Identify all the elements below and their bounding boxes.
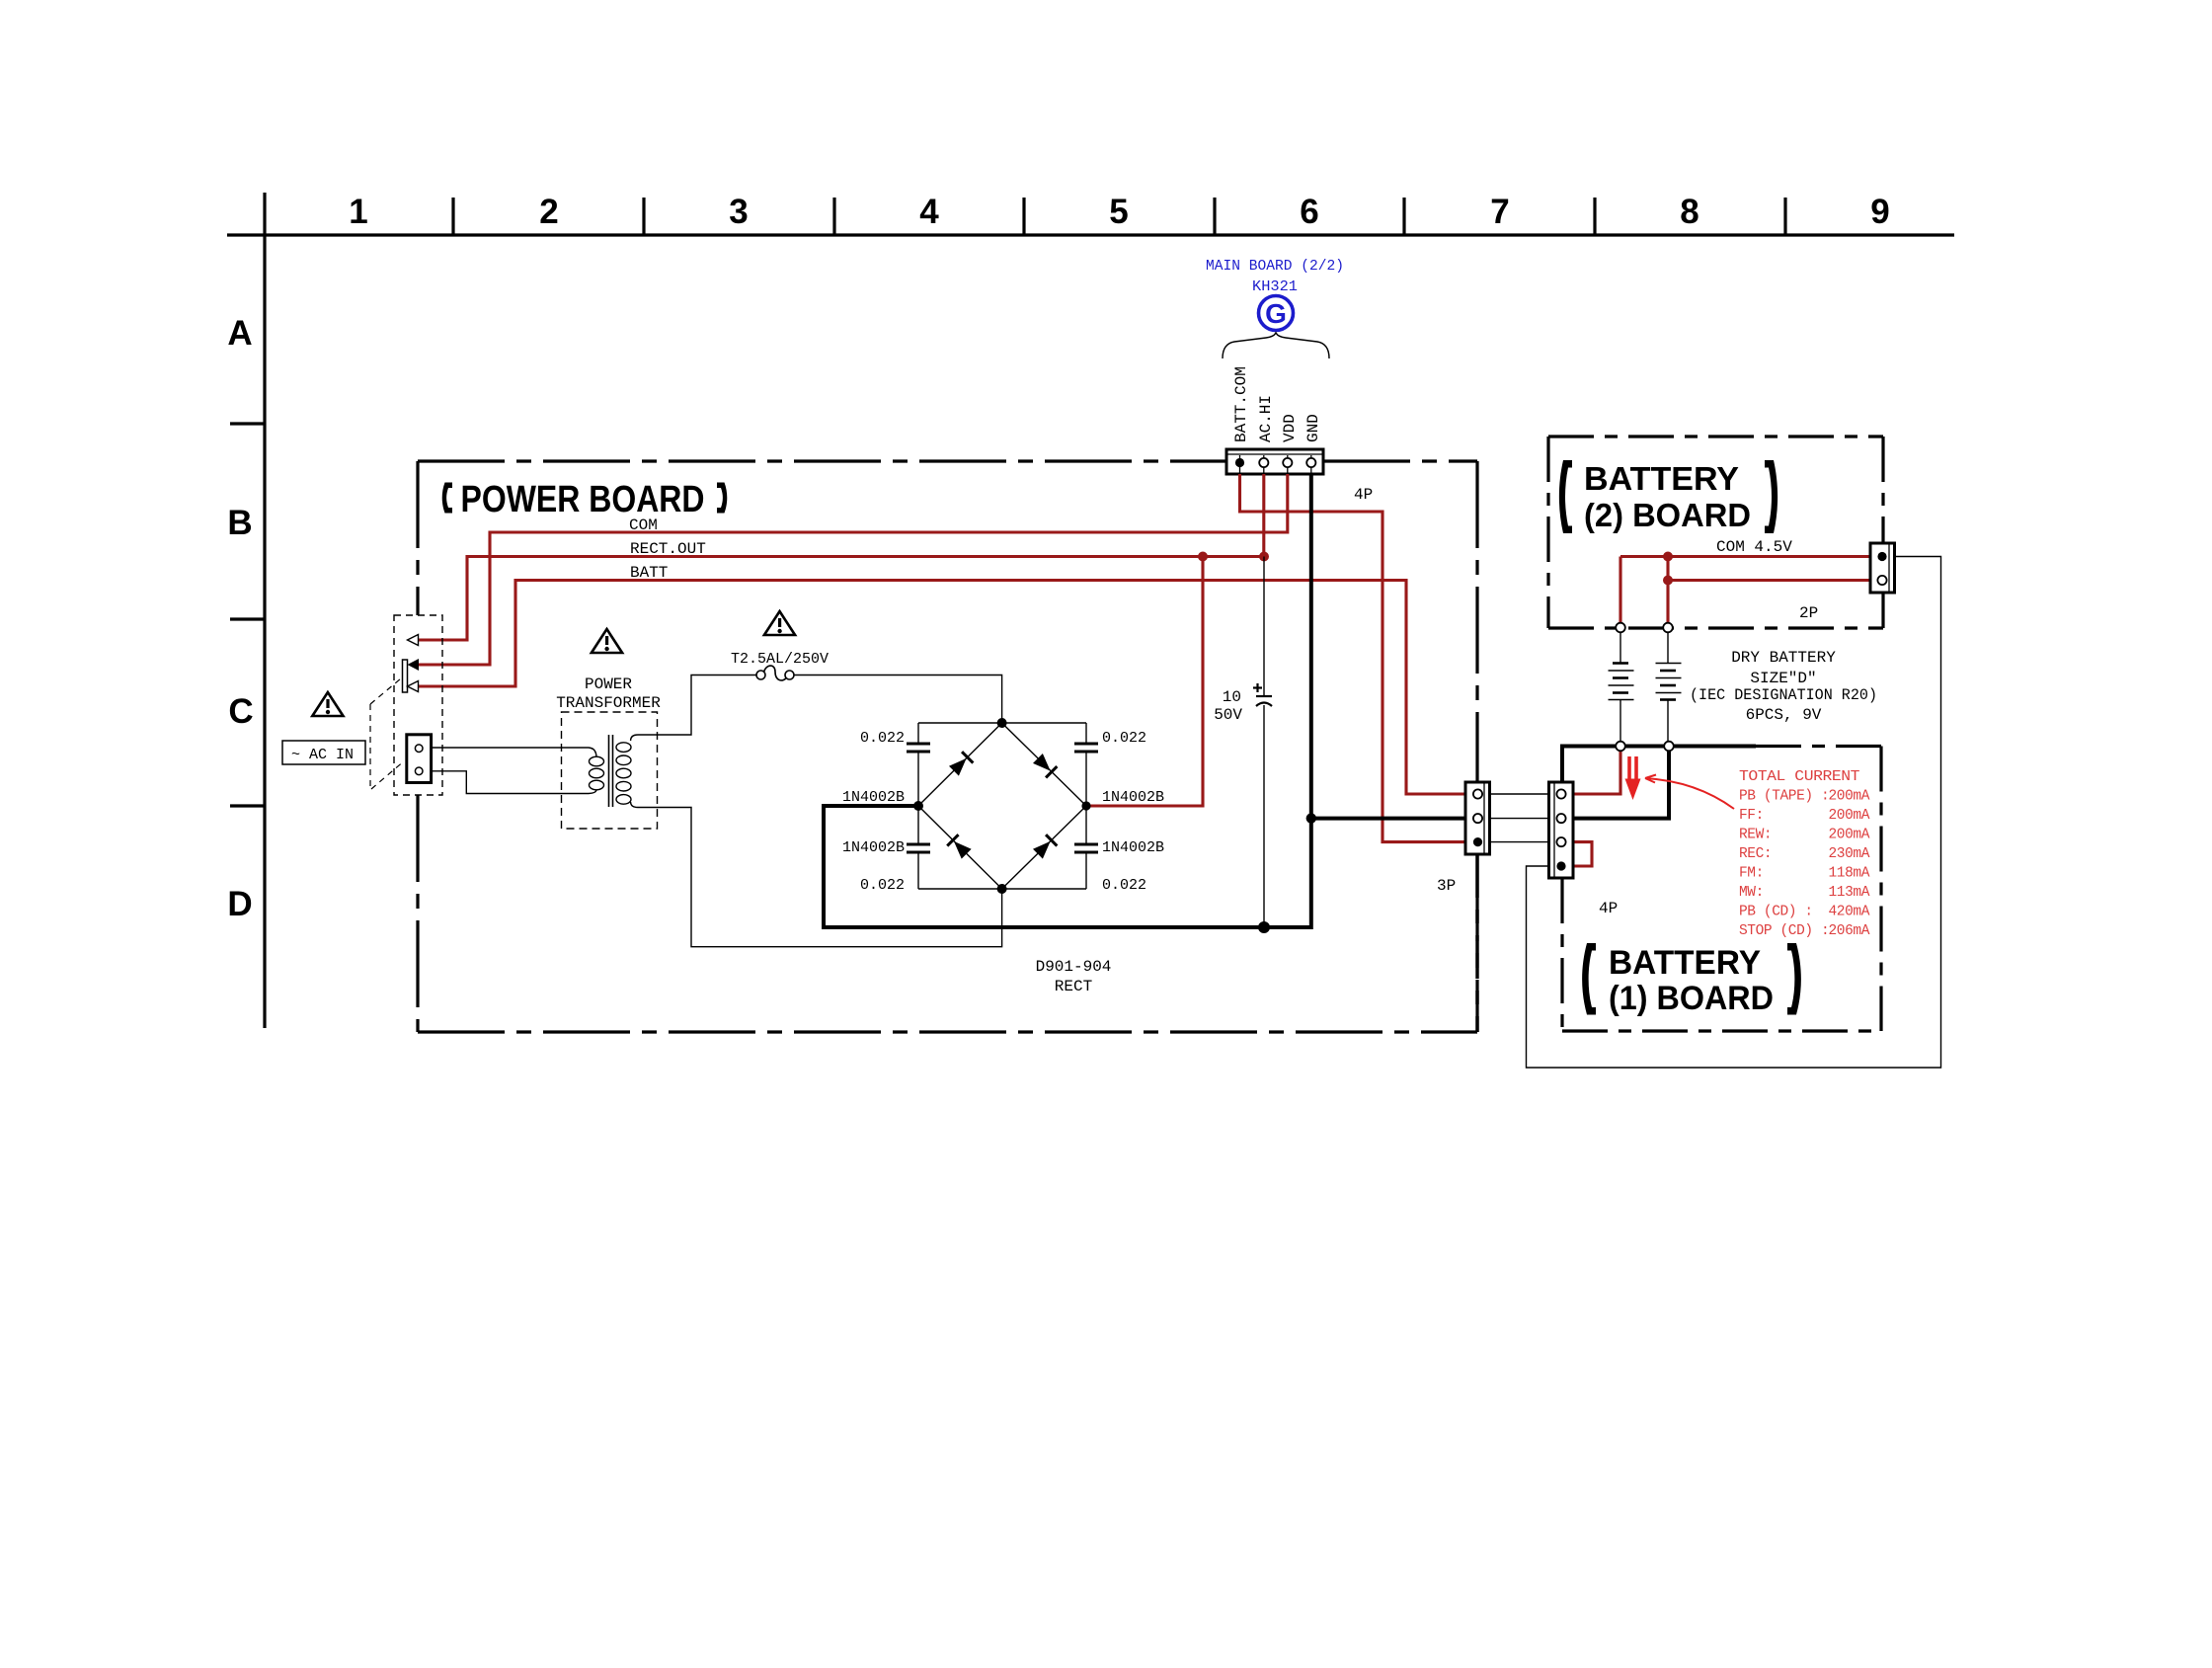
svg-text:STOP (CD) :: STOP (CD) : [1739,923,1829,939]
svg-text:8: 8 [1680,193,1698,231]
svg-text:200mA: 200mA [1828,828,1869,843]
svg-text:10: 10 [1223,688,1241,706]
svg-text:A: A [227,314,252,353]
svg-text:420mA: 420mA [1828,905,1869,920]
svg-text:SIZE"D": SIZE"D" [1750,670,1816,687]
svg-text:GND: GND [1304,414,1322,442]
svg-text:6PCS, 9V: 6PCS, 9V [1746,706,1822,724]
svg-text:2: 2 [539,193,558,231]
svg-text:COM 4.5V: COM 4.5V [1716,538,1792,556]
svg-text:DRY BATTERY: DRY BATTERY [1731,649,1836,667]
svg-text:6: 6 [1300,193,1318,231]
svg-text:3: 3 [729,193,748,231]
svg-text:1N4002B: 1N4002B [1102,839,1164,856]
svg-text:B: B [227,504,252,542]
svg-text:1N4002B: 1N4002B [1102,789,1164,806]
svg-text:POWER: POWER [585,675,632,693]
svg-text:POWER BOARD: POWER BOARD [461,479,705,520]
svg-text:50V: 50V [1214,706,1242,724]
svg-text:PB (TAPE) :: PB (TAPE) : [1739,789,1829,805]
svg-text:BATT.COM: BATT.COM [1232,366,1250,442]
svg-text:4: 4 [919,193,939,231]
svg-text:0.022: 0.022 [1102,730,1146,747]
svg-text:4P: 4P [1599,900,1618,917]
svg-text:1N4002B: 1N4002B [842,839,905,856]
svg-text:C: C [228,692,253,731]
svg-text:TOTAL CURRENT: TOTAL CURRENT [1739,769,1860,785]
svg-text:REW:: REW: [1739,828,1772,843]
svg-text:0.022: 0.022 [1102,877,1146,894]
svg-text:KH321: KH321 [1252,278,1298,295]
svg-text:(1) BOARD: (1) BOARD [1609,980,1774,1017]
svg-text:BATTERY: BATTERY [1584,460,1739,497]
svg-text:206mA: 206mA [1828,923,1869,939]
svg-text:RECT: RECT [1055,978,1092,995]
svg-text:VDD: VDD [1281,414,1299,442]
svg-text:7: 7 [1490,193,1509,231]
svg-text:D901-904: D901-904 [1036,958,1112,976]
svg-text:1: 1 [349,193,367,231]
svg-text:FM:: FM: [1739,866,1764,882]
svg-text:9: 9 [1870,193,1889,231]
svg-text:4P: 4P [1354,486,1373,504]
svg-text:FF:: FF: [1739,808,1764,824]
svg-text:AC.HI: AC.HI [1257,395,1275,442]
svg-text:230mA: 230mA [1828,846,1869,862]
svg-text:D: D [227,885,252,923]
svg-text:200mA: 200mA [1828,789,1869,805]
svg-text:1N4002B: 1N4002B [842,789,905,806]
svg-text:PB (CD) :: PB (CD) : [1739,905,1813,920]
svg-text:TRANSFORMER: TRANSFORMER [556,694,661,712]
svg-text:118mA: 118mA [1828,866,1869,882]
svg-text:MW:: MW: [1739,885,1764,901]
svg-text:3P: 3P [1437,877,1456,895]
svg-text:BATTERY: BATTERY [1609,944,1761,982]
svg-text:200mA: 200mA [1828,808,1869,824]
svg-text:0.022: 0.022 [860,877,905,894]
svg-text:113mA: 113mA [1828,885,1869,901]
svg-text:(IEC DESIGNATION R20): (IEC DESIGNATION R20) [1690,686,1877,704]
svg-text:MAIN BOARD (2/2): MAIN BOARD (2/2) [1206,258,1344,275]
svg-text:G: G [1265,298,1287,329]
svg-text:0.022: 0.022 [860,730,905,747]
svg-text:REC:: REC: [1739,846,1772,862]
svg-text:~ AC IN: ~ AC IN [291,747,354,763]
svg-text:(2) BOARD: (2) BOARD [1584,497,1751,533]
svg-text:5: 5 [1109,193,1128,231]
svg-text:T2.5AL/250V: T2.5AL/250V [731,651,829,668]
svg-text:2P: 2P [1799,604,1818,622]
